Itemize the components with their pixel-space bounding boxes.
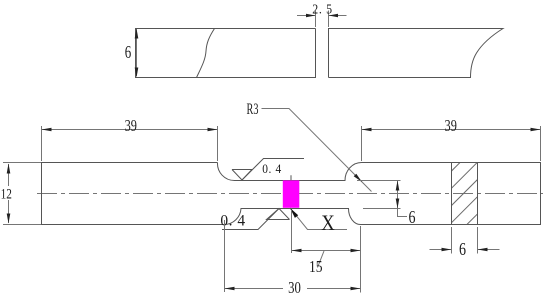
- svg-text:12: 12: [1, 185, 12, 202]
- svg-text:X: X: [321, 212, 335, 236]
- svg-text:6: 6: [459, 241, 466, 260]
- svg-text:6: 6: [408, 209, 415, 228]
- svg-text:30: 30: [288, 279, 301, 297]
- svg-text:R3: R3: [247, 100, 259, 118]
- svg-text:39: 39: [125, 117, 137, 135]
- svg-text:15: 15: [309, 258, 323, 277]
- svg-text:2. 5: 2. 5: [312, 1, 333, 17]
- svg-text:39: 39: [445, 117, 457, 135]
- svg-text:0. 4: 0. 4: [262, 161, 282, 176]
- svg-text:6: 6: [125, 43, 132, 63]
